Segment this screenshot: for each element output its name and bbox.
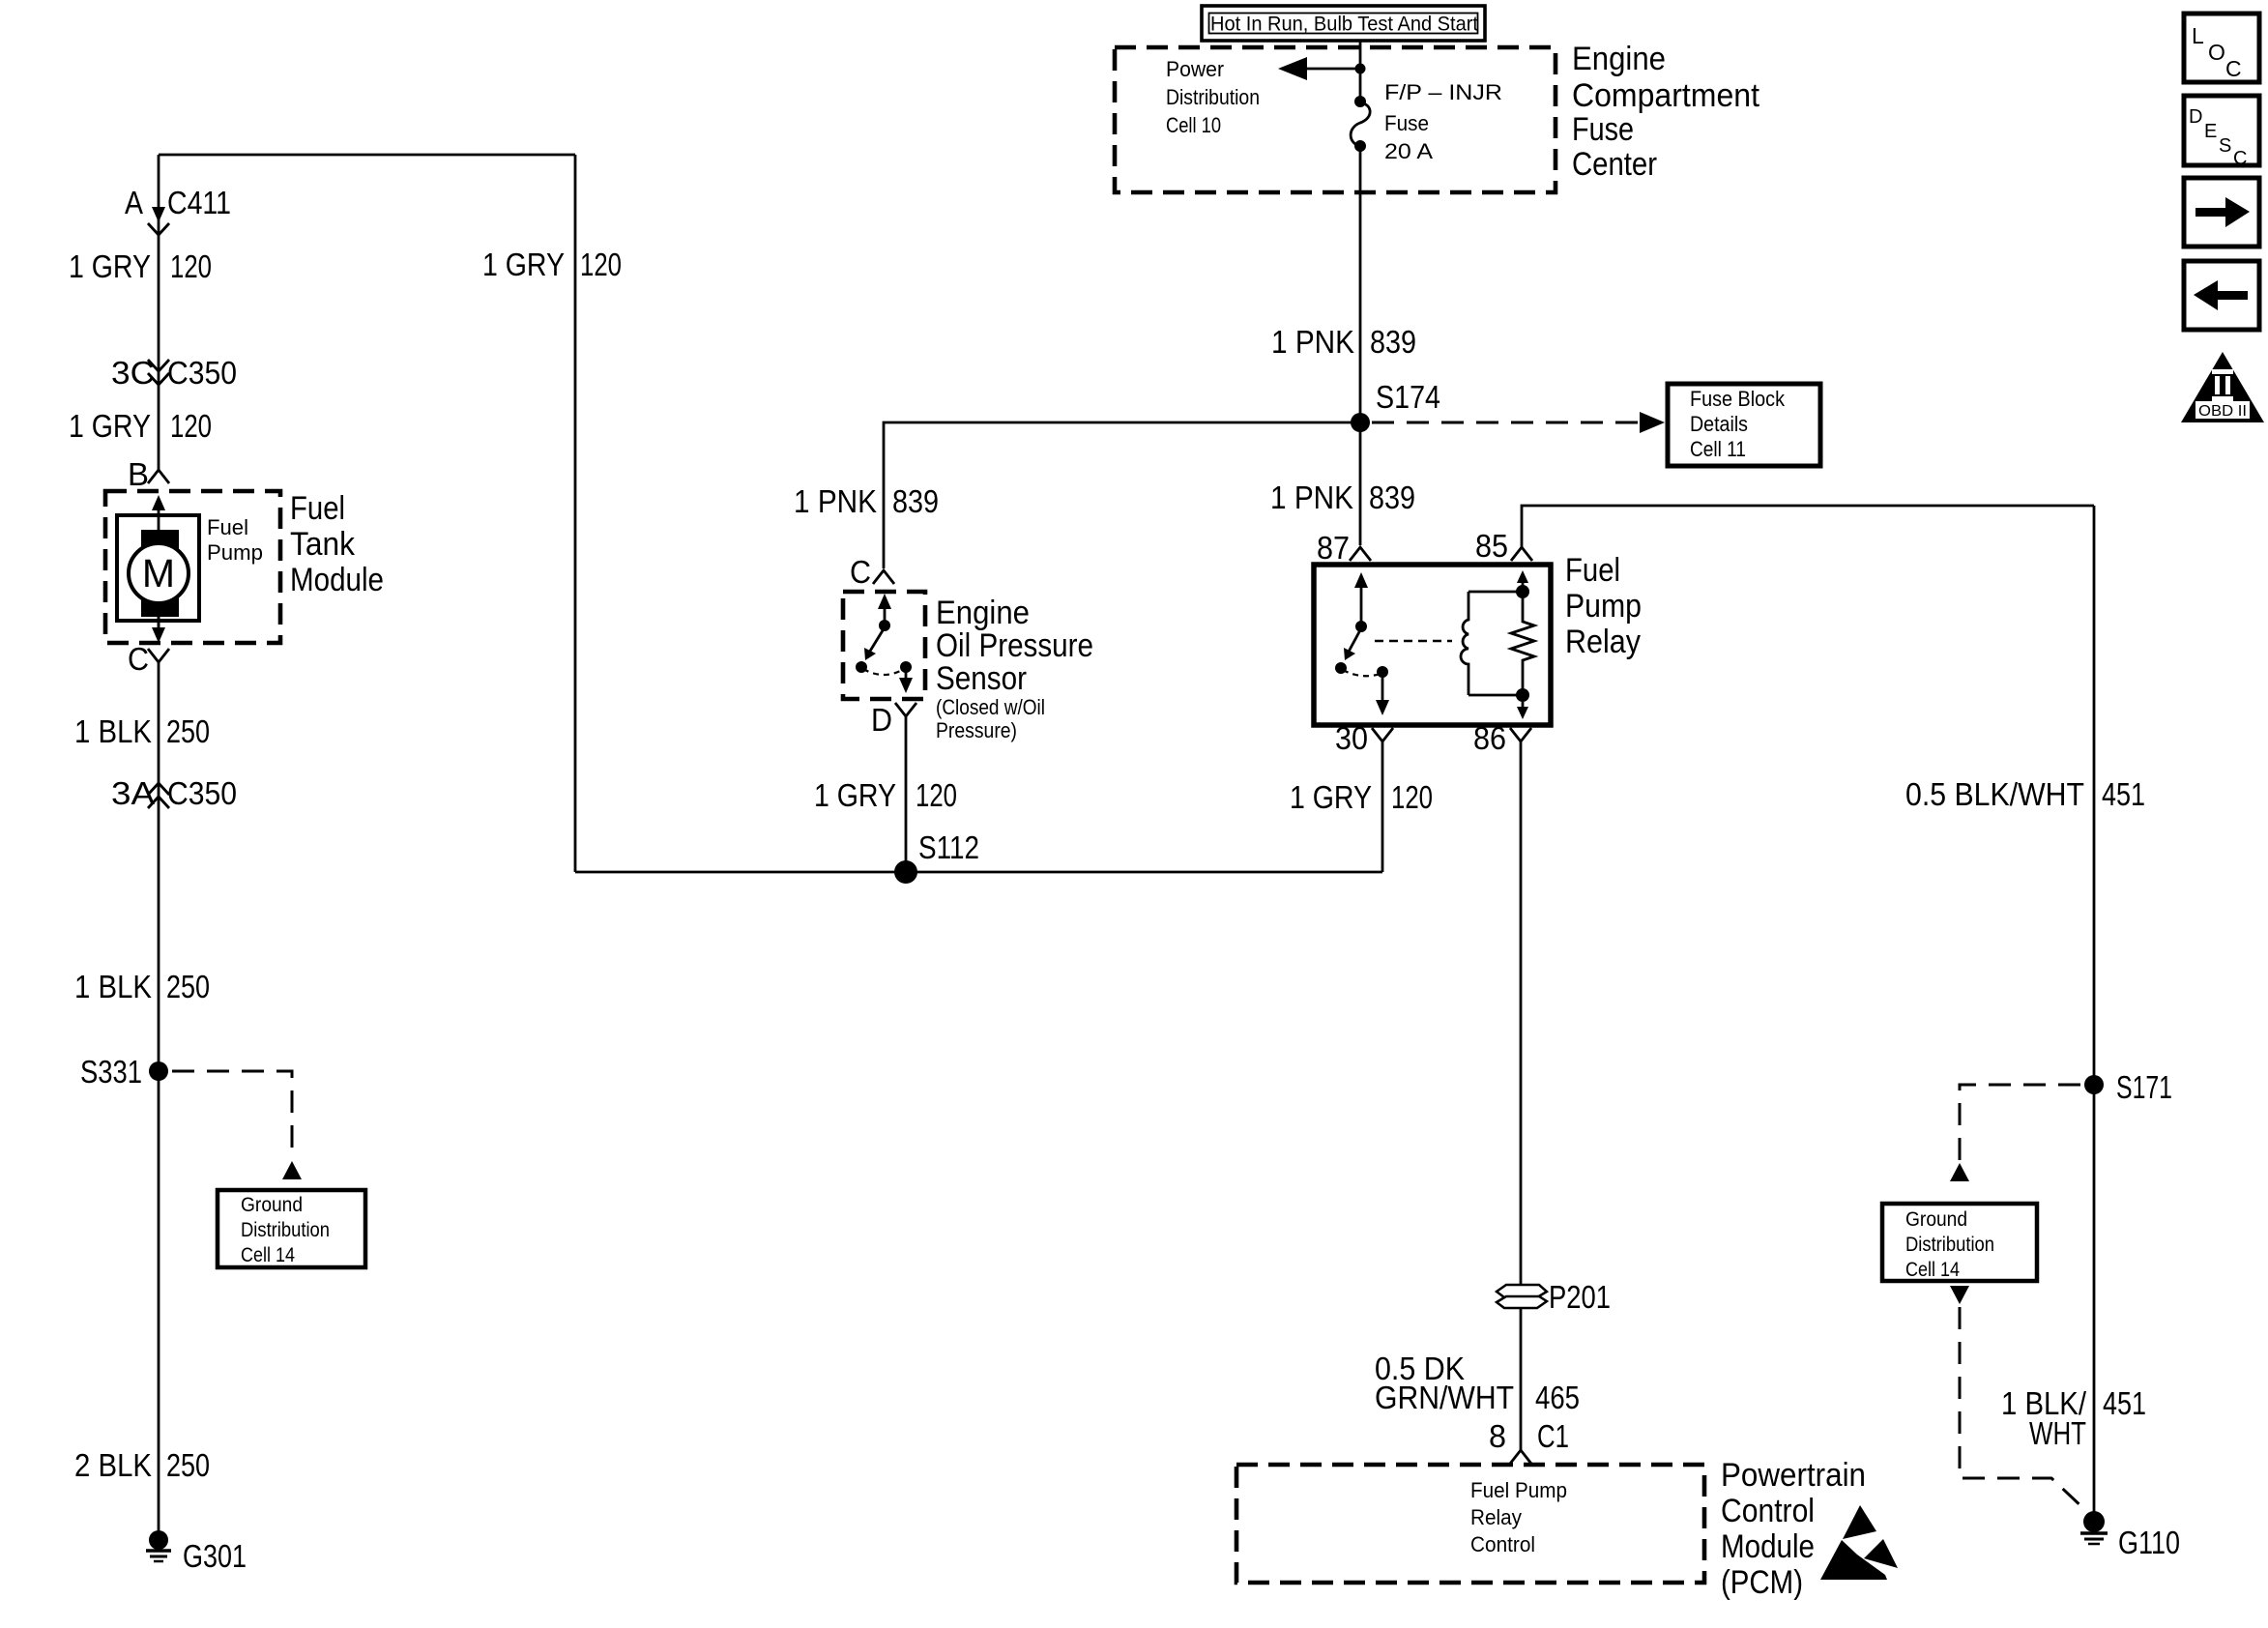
connector pin C of fuel tank module xyxy=(128,641,169,677)
svg-text:Module: Module xyxy=(290,562,384,598)
svg-text:120: 120 xyxy=(580,247,622,282)
wire out of pump with down arrow xyxy=(158,617,160,634)
svg-text:Engine: Engine xyxy=(1572,41,1666,77)
svg-text:250: 250 xyxy=(166,1447,210,1483)
svg-text:C350: C350 xyxy=(167,775,237,811)
svg-text:451: 451 xyxy=(2102,776,2145,812)
wire S174 left branch xyxy=(884,422,1360,568)
label 1 PNK 839 (above S174) xyxy=(1271,324,1416,360)
label 1 BLK/ WHT 451 xyxy=(2001,1385,2146,1451)
label 1 GRY 120 (sensor output) xyxy=(814,777,957,813)
relay coil arrow to pin 86 xyxy=(1522,702,1525,710)
svg-text:1 GRY: 1 GRY xyxy=(814,777,896,813)
svg-text:Tank: Tank xyxy=(290,526,356,563)
label 1 GRY 120 (upper left) xyxy=(69,248,212,284)
svg-text:839: 839 xyxy=(1370,324,1416,360)
svg-text:86: 86 xyxy=(1473,720,1506,756)
label 2 BLK 250 xyxy=(74,1447,210,1483)
svg-text:S: S xyxy=(2219,135,2231,157)
svg-text:S174: S174 xyxy=(1376,379,1440,415)
connector pin B of fuel tank module xyxy=(128,456,169,492)
svg-text:Cell 14: Cell 14 xyxy=(1905,1259,1960,1281)
wire right branch down to S112 xyxy=(574,155,577,872)
sensor fixed contact (open side) xyxy=(856,661,867,673)
svg-text:451: 451 xyxy=(2103,1385,2146,1421)
label 0.5 BLK/WHT 451 xyxy=(1905,776,2145,812)
sensor switch common with up arrow xyxy=(884,603,887,624)
svg-text:Module: Module xyxy=(1721,1528,1815,1565)
OBD II symbol xyxy=(2181,352,2264,422)
svg-text:1 GRY: 1 GRY xyxy=(1290,779,1372,815)
svg-text:Fuel: Fuel xyxy=(290,490,345,527)
svg-text:Cell 10: Cell 10 xyxy=(1166,113,1221,137)
svg-text:85: 85 xyxy=(1475,528,1508,564)
wire S112 horizontal xyxy=(575,871,1382,874)
svg-text:Sensor: Sensor xyxy=(936,660,1027,697)
svg-text:0.5 BLK/WHT: 0.5 BLK/WHT xyxy=(1905,776,2084,812)
svg-text:L: L xyxy=(2192,23,2204,48)
svg-text:Pump: Pump xyxy=(207,540,263,565)
svg-text:Compartment: Compartment xyxy=(1572,77,1760,114)
ground G110 xyxy=(2080,1511,2180,1560)
relay switch arm xyxy=(1349,628,1361,652)
fuse F/P-INJR 20 A xyxy=(1351,96,1370,152)
wire S174 down to relay pin 87 xyxy=(1359,422,1362,545)
svg-text:8: 8 xyxy=(1489,1418,1506,1454)
svg-text:Distribution: Distribution xyxy=(1905,1234,1994,1256)
svg-text:3A: 3A xyxy=(111,775,155,811)
Engine Compartment Fuse Center dashed box xyxy=(1115,47,1556,192)
connector pin D of oil pressure sensor xyxy=(871,702,916,738)
label Fuel Pump Relay xyxy=(1565,552,1642,660)
relay pin 86 connector xyxy=(1473,720,1531,756)
svg-text:D: D xyxy=(2189,106,2202,128)
svg-text:Distribution: Distribution xyxy=(241,1219,330,1241)
wire top horizontal xyxy=(159,154,575,157)
svg-text:S171: S171 xyxy=(2116,1069,2172,1105)
dashed reference S171 to ground distribution xyxy=(1960,1085,2080,1160)
relay actuation dashed link xyxy=(1375,640,1452,643)
svg-text:120: 120 xyxy=(170,408,212,444)
legend DESC box xyxy=(2184,96,2259,169)
splice S171 xyxy=(2084,1075,2104,1094)
svg-text:465: 465 xyxy=(1535,1380,1580,1415)
svg-text:A: A xyxy=(125,185,143,220)
svg-text:M: M xyxy=(142,551,175,596)
wire from Hot box down to fuse xyxy=(1359,41,1362,102)
svg-text:(PCM): (PCM) xyxy=(1721,1564,1803,1601)
label 1 PNK 839 (left branch) xyxy=(794,483,939,519)
label 1 PNK 839 (relay branch) xyxy=(1270,480,1415,515)
svg-text:S331: S331 xyxy=(80,1054,142,1090)
Fuse Block Details Cell 11 box xyxy=(1668,384,1820,466)
svg-text:1 GRY: 1 GRY xyxy=(482,247,565,282)
svg-text:120: 120 xyxy=(170,248,212,284)
relay fixed contact left xyxy=(1335,662,1347,674)
svg-text:839: 839 xyxy=(1369,480,1415,515)
svg-text:F/P – INJR: F/P – INJR xyxy=(1384,80,1502,104)
svg-text:30: 30 xyxy=(1335,720,1368,756)
svg-text:Fuel: Fuel xyxy=(1565,552,1620,589)
svg-text:C: C xyxy=(2233,148,2247,169)
sensor switch arm xyxy=(869,627,885,653)
svg-text:120: 120 xyxy=(1391,779,1433,815)
svg-text:Engine: Engine xyxy=(936,595,1030,631)
power feed label box "Hot In Run, Bulb Test And Start" xyxy=(1202,6,1485,41)
label Power Distribution Cell 10 xyxy=(1166,57,1260,137)
svg-text:Fuel Pump: Fuel Pump xyxy=(1470,1478,1567,1502)
legend back arrow box xyxy=(2184,261,2259,330)
svg-text:G301: G301 xyxy=(183,1538,247,1574)
svg-text:120: 120 xyxy=(916,777,957,813)
svg-text:S112: S112 xyxy=(918,829,979,865)
label Engine Oil Pressure Sensor xyxy=(936,595,1093,742)
svg-text:3C: 3C xyxy=(111,355,155,391)
svg-text:Center: Center xyxy=(1572,146,1657,183)
sensor travel dashed arc xyxy=(863,669,904,675)
ground G301 xyxy=(146,1530,247,1574)
svg-text:Fuse: Fuse xyxy=(1384,111,1429,135)
label Fuel Tank Module xyxy=(290,490,384,598)
relay pin 87 connector xyxy=(1317,530,1371,566)
Ground Distribution Cell 14 box (right) xyxy=(1882,1204,2037,1281)
node junction to power distribution xyxy=(1355,64,1366,74)
arrow to Power Distribution Cell 10 xyxy=(1286,68,1360,71)
svg-text:Power: Power xyxy=(1166,57,1224,81)
connector pin 8 C1 of PCM xyxy=(1489,1418,1569,1464)
svg-text:OBD II: OBD II xyxy=(2198,403,2247,420)
svg-text:Cell 14: Cell 14 xyxy=(241,1244,295,1266)
svg-text:O: O xyxy=(2208,40,2225,65)
splice S174 xyxy=(1351,413,1370,432)
svg-text:Details: Details xyxy=(1690,412,1748,436)
svg-text:Fuse: Fuse xyxy=(1572,111,1634,148)
svg-text:Distribution: Distribution xyxy=(1166,85,1260,109)
svg-text:1 GRY: 1 GRY xyxy=(69,248,151,284)
dashed reference S331 to ground distribution xyxy=(172,1071,292,1158)
wire D down to S112 xyxy=(905,716,908,872)
connector pin C of oil pressure sensor xyxy=(850,554,894,590)
relay travel dashed arc xyxy=(1343,670,1381,676)
svg-text:250: 250 xyxy=(166,713,210,749)
Powertrain Control Module dashed box xyxy=(1236,1465,1704,1583)
connector 3A C350 xyxy=(111,775,237,811)
label Fuel Pump (inside module) xyxy=(207,515,263,565)
relay coil arrow to pin 85 xyxy=(1522,580,1525,588)
svg-text:Control: Control xyxy=(1470,1532,1535,1556)
svg-text:C411: C411 xyxy=(167,185,231,220)
label Powertrain Control Module (PCM) xyxy=(1721,1457,1866,1601)
svg-text:G110: G110 xyxy=(2118,1525,2180,1560)
svg-text:Fuse Block: Fuse Block xyxy=(1690,387,1786,411)
svg-text:Control: Control xyxy=(1721,1493,1815,1529)
legend LOC box xyxy=(2184,14,2259,82)
ESD sensitive device symbol xyxy=(1820,1505,1898,1580)
svg-text:1 PNK: 1 PNK xyxy=(1270,480,1353,515)
wire 451 branch down to G110 xyxy=(2093,506,2096,1522)
svg-text:B: B xyxy=(128,456,149,492)
label 1 BLK 250 (lower) xyxy=(74,969,210,1004)
wire into pump with up arrow xyxy=(158,503,160,530)
wire pin 86 down to P201 xyxy=(1520,741,1523,1285)
label 1 GRY 120 (lower left) xyxy=(69,408,212,444)
svg-text:C350: C350 xyxy=(167,355,237,391)
svg-text:1 BLK: 1 BLK xyxy=(74,969,152,1004)
relay pin 85 connector xyxy=(1475,528,1532,564)
svg-text:Oil Pressure: Oil Pressure xyxy=(936,627,1093,664)
svg-text:WHT: WHT xyxy=(2029,1415,2086,1451)
svg-text:Relay: Relay xyxy=(1470,1505,1522,1529)
svg-text:C: C xyxy=(850,554,871,590)
sensor output contact with down arrow xyxy=(900,661,912,673)
wire P201 down to PCM pin 8 xyxy=(1520,1308,1523,1450)
splice S112 xyxy=(894,860,917,884)
svg-text:1 BLK: 1 BLK xyxy=(74,713,152,749)
svg-text:E: E xyxy=(2204,121,2217,142)
fuel pump motor M xyxy=(117,515,199,638)
pass-through grommet P201 xyxy=(1497,1279,1611,1315)
svg-text:2 BLK: 2 BLK xyxy=(74,1447,152,1483)
connector A C411 xyxy=(125,185,231,235)
svg-text:C: C xyxy=(128,641,149,677)
relay coil suppression resistor xyxy=(1511,585,1534,702)
wire pin 85 up and right to 451 branch xyxy=(1522,506,2094,547)
Ground Distribution Cell 14 box (left) xyxy=(218,1190,365,1267)
relay output contact to pin 30 xyxy=(1377,666,1388,678)
wire fuse to S174 xyxy=(1359,146,1362,422)
svg-text:Powertrain: Powertrain xyxy=(1721,1457,1866,1494)
dashed reference from ground distribution to G110 xyxy=(1950,1286,1969,1304)
wire left vertical upper xyxy=(158,155,160,470)
connector 3C C350 xyxy=(111,355,237,391)
svg-text:Pump: Pump xyxy=(1565,588,1642,625)
label 1 GRY 120 (pin 30) xyxy=(1290,779,1433,815)
svg-text:Ground: Ground xyxy=(241,1194,303,1216)
svg-text:GRN/WHT: GRN/WHT xyxy=(1375,1380,1514,1415)
svg-text:250: 250 xyxy=(166,969,210,1004)
svg-text:Hot In Run, Bulb Test And Star: Hot In Run, Bulb Test And Start xyxy=(1210,14,1478,36)
Fuel Pump Relay box xyxy=(1314,565,1551,725)
svg-text:Relay: Relay xyxy=(1565,624,1641,660)
label F/P - INJR Fuse 20 A xyxy=(1384,80,1502,163)
svg-text:(Closed w/Oil: (Closed w/Oil xyxy=(936,695,1045,719)
legend forward arrow box xyxy=(2184,178,2259,247)
label Fuel Pump Relay Control xyxy=(1470,1478,1567,1556)
label 1 GRY 120 (right branch) xyxy=(482,247,622,282)
svg-text:Ground: Ground xyxy=(1905,1208,1967,1231)
svg-text:C: C xyxy=(2225,56,2242,81)
svg-text:D: D xyxy=(871,702,892,738)
svg-text:Pressure): Pressure) xyxy=(936,718,1017,742)
svg-text:Fuel: Fuel xyxy=(207,515,248,539)
relay coil xyxy=(1461,592,1523,695)
svg-text:87: 87 xyxy=(1317,530,1350,566)
Fuel Tank Module dashed box xyxy=(105,491,280,643)
relay switch common with up arrow xyxy=(1360,582,1363,625)
svg-text:P201: P201 xyxy=(1549,1279,1611,1315)
label 1 BLK 250 (upper) xyxy=(74,713,210,749)
svg-text:Cell 11: Cell 11 xyxy=(1690,437,1746,461)
svg-text:839: 839 xyxy=(892,483,939,519)
svg-text:C1: C1 xyxy=(1537,1418,1569,1454)
dashed reference arrow S174 to Fuse Block Details xyxy=(1372,422,1643,424)
Engine Oil Pressure Sensor dashed box xyxy=(843,592,925,699)
svg-text:1 PNK: 1 PNK xyxy=(1271,324,1354,360)
relay pin 30 connector xyxy=(1335,720,1393,756)
svg-text:1 GRY: 1 GRY xyxy=(69,408,151,444)
svg-text:20 A: 20 A xyxy=(1384,139,1433,163)
wire C down to G301 xyxy=(158,662,160,1540)
svg-text:1 PNK: 1 PNK xyxy=(794,483,877,519)
wire pin 30 down to S112 line xyxy=(1381,741,1384,872)
label 0.5 DK GRN/WHT 465 xyxy=(1375,1351,1580,1415)
splice S331 xyxy=(149,1061,168,1081)
label Engine Compartment Fuse Center xyxy=(1572,41,1760,183)
